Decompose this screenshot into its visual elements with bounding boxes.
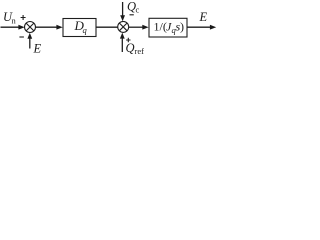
wire E feedback into S1 xyxy=(29,38,31,49)
wire S2 to block 1/(Jqs) xyxy=(129,26,144,28)
svg-text:E: E xyxy=(33,42,42,56)
svg-text:): ) xyxy=(180,20,184,34)
plus sign at summer S2 bottom input xyxy=(126,38,130,42)
block Dq xyxy=(63,19,96,37)
wire Qref input from bottom xyxy=(121,38,123,52)
arrowhead up into summer S2 xyxy=(120,33,125,39)
arrowhead down into summer S2 xyxy=(120,15,125,21)
wire Dq to summer S2 xyxy=(97,26,118,28)
node Un input label xyxy=(3,10,17,26)
svg-text:1/(: 1/( xyxy=(154,20,167,34)
block 1/(Jqs) xyxy=(149,18,187,37)
wire output E xyxy=(188,26,211,28)
arrowhead into block Dq xyxy=(56,25,62,30)
svg-text:c: c xyxy=(136,5,140,15)
node E feedback label xyxy=(33,42,42,56)
svg-text:E: E xyxy=(199,10,208,24)
summer S2 (circle with cross) xyxy=(118,21,129,32)
plus sign at summer S1 top input xyxy=(21,15,26,20)
arrowhead into summer S1 xyxy=(18,25,24,30)
summer S1 (circle with cross) xyxy=(25,22,36,33)
minus sign at summer S2 top input xyxy=(130,14,134,16)
arrowhead into block 1/(Jqs) xyxy=(142,25,148,30)
arrowhead output E xyxy=(210,25,216,30)
node Qref label xyxy=(126,41,145,56)
arrowhead up into summer S1 xyxy=(27,33,32,39)
minus sign at summer S1 bottom input xyxy=(19,36,24,38)
node Qc label xyxy=(127,0,140,15)
svg-text:ref: ref xyxy=(135,46,145,55)
wire Qc input from top xyxy=(122,2,124,16)
node E output label xyxy=(199,10,208,24)
svg-text:Q: Q xyxy=(126,41,135,55)
wire Un input xyxy=(1,26,21,28)
wire S1 to block Dq xyxy=(36,26,58,28)
